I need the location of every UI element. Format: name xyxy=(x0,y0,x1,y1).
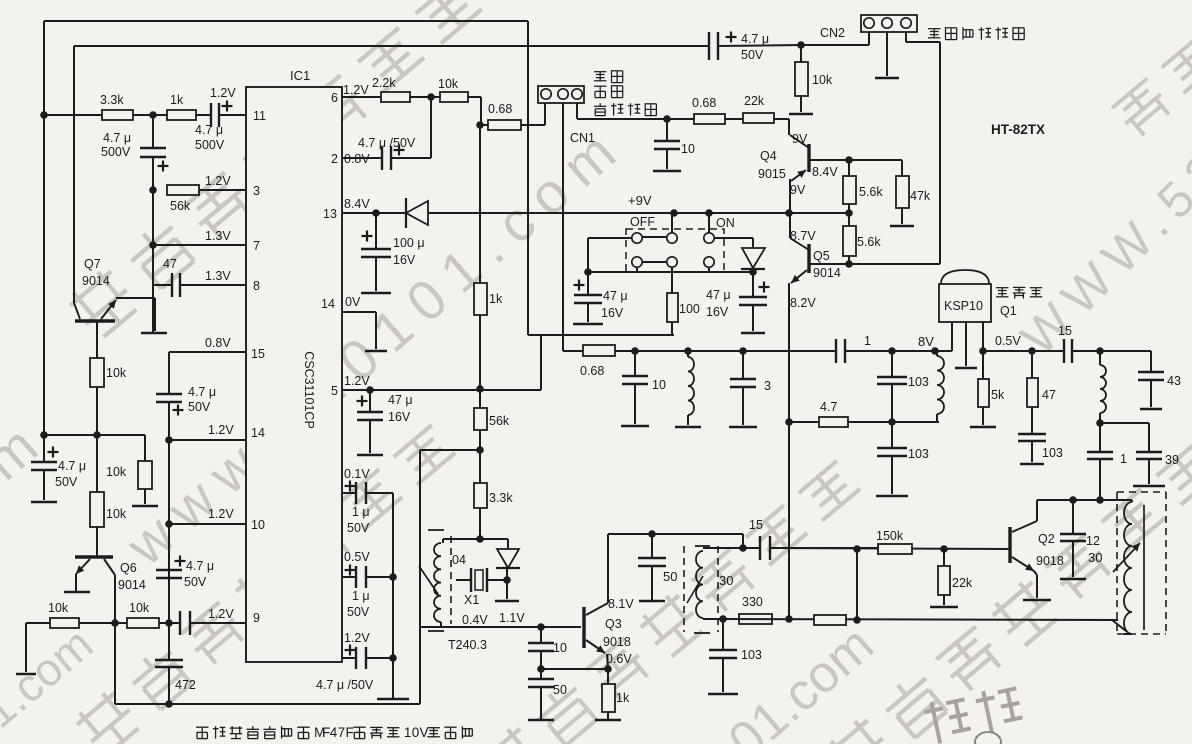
wire 0.5V line xyxy=(983,350,1064,352)
svg-text:39: 39 xyxy=(1165,453,1179,467)
wire 150k down xyxy=(856,549,858,620)
ground Q1 middle leg xyxy=(955,367,977,370)
resistor 10k row623 a xyxy=(50,618,79,628)
node junction base cap col xyxy=(537,623,545,631)
wire x169 upper xyxy=(168,352,170,394)
ground X1 xyxy=(506,580,508,599)
svg-text:15: 15 xyxy=(1058,324,1072,338)
svg-text:+9V: +9V xyxy=(628,193,652,208)
svg-text:4.7 μ: 4.7 μ xyxy=(186,559,214,573)
capacitor 15 b xyxy=(1063,339,1065,363)
wire pin13 row xyxy=(342,212,406,214)
watermark scribble bottom-right xyxy=(922,684,1024,744)
crystal X1 xyxy=(456,579,471,581)
svg-text:1k: 1k xyxy=(616,691,630,705)
svg-text:9V: 9V xyxy=(792,132,808,146)
capacitor 10 base xyxy=(540,627,542,643)
wire 8V line right xyxy=(845,350,952,352)
svg-text:0.68: 0.68 xyxy=(488,102,512,116)
capacitor 12 xyxy=(1072,500,1074,534)
capacitor 39 xyxy=(1148,423,1150,452)
svg-text:14: 14 xyxy=(321,297,335,311)
svg-text:10: 10 xyxy=(553,641,567,655)
coil 30 tank xyxy=(703,547,743,549)
capacitor 47u/16V pin5 xyxy=(369,390,371,412)
capacitor 47u/16V right xyxy=(752,269,754,297)
wire CN2 pin1 xyxy=(868,32,870,45)
watermark chinese center-bottom xyxy=(477,456,865,744)
wire Q5 collector stem xyxy=(789,213,791,238)
svg-text:30: 30 xyxy=(1088,550,1102,565)
wire Q7 emitter xyxy=(116,297,155,299)
wire pin6 down xyxy=(480,97,482,125)
svg-text:8.1V: 8.1V xyxy=(608,597,634,611)
wire Q5 emitter vertical xyxy=(788,283,790,619)
coil choke mid xyxy=(687,351,689,357)
svg-text:16V: 16V xyxy=(601,306,624,320)
wire bottom rail right xyxy=(723,619,1118,620)
switch contacts bottom xyxy=(632,257,642,267)
wire 8V line left xyxy=(615,350,836,352)
svg-text:1.2V: 1.2V xyxy=(208,607,234,621)
node junction coil3 top xyxy=(931,347,939,355)
svg-text:1 μ: 1 μ xyxy=(352,505,370,519)
wire Q4 base row xyxy=(809,159,902,161)
svg-text:500V: 500V xyxy=(101,145,131,159)
svg-text:1: 1 xyxy=(404,725,412,740)
resistor 1k Q3 xyxy=(602,684,615,712)
capacitor coupling pin9 xyxy=(179,611,181,635)
node junction pin13 xyxy=(372,209,380,217)
svg-text:50: 50 xyxy=(553,683,567,697)
resistor 47k xyxy=(901,160,903,176)
wire pin10 row xyxy=(169,523,246,525)
svg-text:4.7 μ: 4.7 μ xyxy=(58,459,86,473)
wire 9V rail xyxy=(428,212,849,214)
svg-text:56k: 56k xyxy=(170,199,191,213)
transformer T240.3 primary coil xyxy=(442,539,444,543)
wire pin14 row xyxy=(169,439,246,441)
watermark chinese bottom-left xyxy=(72,420,460,744)
wire left gnd stub row623 xyxy=(25,623,27,672)
node junction 9V rail x789 xyxy=(785,209,793,217)
svg-text:47: 47 xyxy=(1042,388,1056,402)
capacitor 103 x1032 xyxy=(1018,433,1046,435)
svg-text:4.7: 4.7 xyxy=(820,400,837,414)
capacitor 4.7u/50V pin2 xyxy=(381,146,383,170)
svg-text:1 μ: 1 μ xyxy=(352,589,370,603)
svg-text:Q4: Q4 xyxy=(760,149,777,163)
node junction cap50b xyxy=(648,530,656,538)
svg-text:13: 13 xyxy=(323,207,337,221)
capacitor 1 b xyxy=(1099,423,1101,452)
wire 4.7 row xyxy=(789,421,939,423)
wire CN2pin3 vertical xyxy=(939,42,941,264)
svg-text:50V: 50V xyxy=(55,475,78,489)
resistor 10k Q7base xyxy=(90,358,104,387)
coil choke 8V xyxy=(937,356,944,414)
svg-text:1.2V: 1.2V xyxy=(210,86,236,100)
svg-text:0.4V: 0.4V xyxy=(462,613,488,627)
coil antenna core xyxy=(1143,505,1145,630)
svg-text:F: F xyxy=(345,725,353,740)
node junction x97 y435 xyxy=(93,431,101,439)
capacitor 4.7u/50V top xyxy=(708,32,710,60)
svg-text:100: 100 xyxy=(679,302,700,316)
node junction 4.7/103 xyxy=(888,347,896,355)
transistor Q3 9018 xyxy=(582,607,585,648)
svg-text:50: 50 xyxy=(663,569,677,584)
capacitor 4.7u/50V pin15 xyxy=(156,393,182,395)
ground Q7 emitter xyxy=(141,332,167,335)
wire top border xyxy=(44,20,528,22)
svg-text:1.2V: 1.2V xyxy=(208,423,234,437)
node junction 47u left xyxy=(584,268,592,276)
node junction coil2 xyxy=(684,347,692,355)
svg-text:0.68: 0.68 xyxy=(580,364,604,378)
node junction 47 top xyxy=(1028,347,1036,355)
node junction Q3 emitter xyxy=(604,665,612,673)
svg-text:T240.3: T240.3 xyxy=(448,638,487,652)
svg-text:1.2V: 1.2V xyxy=(343,83,369,97)
node junction Q1 right leg xyxy=(979,347,987,355)
node junction 0.68 row xyxy=(476,121,484,129)
ground Q6 emitter xyxy=(64,591,90,594)
transistor Q1 KSP10 xyxy=(939,284,991,322)
svg-text:8.7V: 8.7V xyxy=(790,229,816,243)
wire Q1 legs xyxy=(951,322,953,351)
svg-text:56k: 56k xyxy=(489,414,510,428)
wire Q2 emitter xyxy=(1034,571,1037,575)
node junction pin7 row xyxy=(149,241,157,249)
resistor 330 xyxy=(739,614,772,624)
wire row435 xyxy=(44,434,145,436)
wire pin3 row xyxy=(199,189,246,191)
svg-text:0: 0 xyxy=(412,725,420,740)
labels mic jack xyxy=(594,70,623,82)
svg-text:9015: 9015 xyxy=(758,167,786,181)
svg-text:5.6k: 5.6k xyxy=(859,185,883,199)
svg-text:8V: 8V xyxy=(918,334,934,349)
resistor 3.3k osc xyxy=(479,450,481,483)
resistor 150k xyxy=(878,544,912,554)
node junction pin5 cap xyxy=(366,386,374,394)
svg-text:5.6k: 5.6k xyxy=(857,235,881,249)
diode switch xyxy=(714,237,753,239)
svg-text:47: 47 xyxy=(163,257,177,271)
capacitor 47p pin8 xyxy=(171,273,173,297)
resistor 4.7 xyxy=(819,417,848,427)
svg-text:Q1: Q1 xyxy=(1000,304,1017,318)
wire step to cap15 xyxy=(742,534,744,548)
resistor 0.68 b xyxy=(563,350,583,352)
svg-text:4.7 μ: 4.7 μ xyxy=(188,385,216,399)
wire Q3 top row xyxy=(608,533,743,535)
wire left border vertical xyxy=(43,21,45,462)
resistor 5.6k a xyxy=(848,160,850,176)
capacitor 100u/16V xyxy=(375,213,377,249)
ground pin14R xyxy=(365,350,387,353)
svg-text:47 μ: 47 μ xyxy=(388,393,413,407)
wire border2 horizontal xyxy=(74,45,709,47)
svg-text:43: 43 xyxy=(1167,374,1181,388)
wire Q7 base stem xyxy=(96,321,98,358)
node junction 56k row xyxy=(149,186,157,194)
wire pin5 up-link xyxy=(540,335,542,390)
switch dashed box xyxy=(626,229,724,272)
svg-text:10k: 10k xyxy=(812,73,833,87)
svg-text:103: 103 xyxy=(1042,446,1063,460)
svg-text:22k: 22k xyxy=(744,94,765,108)
svg-text:Q5: Q5 xyxy=(813,249,830,263)
svg-text:47 μ: 47 μ xyxy=(706,288,731,302)
resistor 0.68 mic xyxy=(488,120,521,130)
wire pin5 row xyxy=(342,389,541,391)
capacitor 103 lower xyxy=(891,422,893,448)
wire CN1 pin3 xyxy=(576,103,578,119)
svg-text:9018: 9018 xyxy=(603,635,631,649)
wire net-A horizontal xyxy=(528,334,674,336)
wire Q2 collector row xyxy=(1037,499,1132,501)
svg-text:9014: 9014 xyxy=(82,274,110,288)
wire CN2 pin3 xyxy=(905,32,907,42)
wire 0.68 row xyxy=(480,124,545,126)
node junction rail x169 xyxy=(165,700,173,708)
svg-text:1k: 1k xyxy=(489,292,503,306)
node junction osc top xyxy=(476,535,484,543)
wire Q3 collector xyxy=(607,534,609,603)
svg-text:3: 3 xyxy=(764,379,771,393)
wire Q6 collector xyxy=(114,575,116,704)
svg-text:50V: 50V xyxy=(347,521,370,535)
svg-text:15: 15 xyxy=(749,518,763,532)
svg-text:11: 11 xyxy=(253,109,266,123)
wire x169 mid xyxy=(168,402,170,623)
svg-text:0.6V: 0.6V xyxy=(606,652,632,666)
node junction cap10b xyxy=(631,347,639,355)
wire row623 xyxy=(26,622,180,624)
capacitor 4.7u/50V left xyxy=(43,435,45,462)
watermark chinese top-left xyxy=(65,0,487,340)
svg-text:8.2V: 8.2V xyxy=(790,296,816,310)
wire Q2 base row xyxy=(770,548,1010,549)
svg-text:9: 9 xyxy=(253,611,260,625)
svg-text:5k: 5k xyxy=(991,388,1005,402)
wire CN1pin1 stem xyxy=(544,103,546,125)
svg-text:KSP10: KSP10 xyxy=(944,299,983,313)
svg-text:CSC31101CP: CSC31101CP xyxy=(302,351,316,429)
svg-text:4.7 μ: 4.7 μ xyxy=(195,123,223,137)
svg-text:103: 103 xyxy=(741,648,762,662)
transformer T240.3 core dashes xyxy=(450,536,452,624)
node junction 22k top xyxy=(940,545,948,553)
node junction pin14 row xyxy=(165,436,173,444)
svg-text:4.7 μ: 4.7 μ xyxy=(741,32,769,46)
svg-text:2: 2 xyxy=(331,152,338,166)
diode D pin13 xyxy=(405,198,407,228)
wire switch bottom link xyxy=(588,271,753,273)
wire column x153 lower xyxy=(152,157,154,333)
wire Q2 collector stem xyxy=(1036,500,1038,521)
svg-text:0.5V: 0.5V xyxy=(344,550,370,564)
capacitor 472 xyxy=(168,623,170,660)
capacitor 50 collector xyxy=(651,534,653,558)
svg-text:7: 7 xyxy=(253,239,260,253)
capacitor 1 line xyxy=(835,339,837,363)
transistor Q7 9014 xyxy=(75,319,115,322)
svg-text:10k: 10k xyxy=(438,77,459,91)
capacitor 10 b xyxy=(634,351,636,376)
svg-text:4.7 μ /50V: 4.7 μ /50V xyxy=(316,678,374,692)
svg-text:500V: 500V xyxy=(195,138,225,152)
node junction base row 849 xyxy=(845,156,853,164)
svg-text:IC1: IC1 xyxy=(290,68,310,83)
node junction 9V switch xyxy=(670,209,678,217)
svg-text:7: 7 xyxy=(338,725,346,740)
resistor 10k CN2 xyxy=(800,45,802,62)
svg-text:10k: 10k xyxy=(106,465,127,479)
resistor 1k xyxy=(167,110,196,120)
node junction x44 y435 xyxy=(40,431,48,439)
svg-text:1k: 1k xyxy=(170,93,184,107)
capacitor 4.7u/50V pin10col xyxy=(156,569,182,571)
node junction Q6col row623 xyxy=(111,619,119,627)
wire 0.68-22k xyxy=(725,118,743,120)
wire 56k row link xyxy=(420,449,480,451)
svg-text:9018: 9018 xyxy=(1036,554,1064,568)
svg-text:10: 10 xyxy=(681,142,695,156)
wire X1 right xyxy=(487,579,507,581)
ground 1k Q3 xyxy=(595,719,621,722)
capacitor 50 base xyxy=(540,669,542,679)
wire 0.5V right xyxy=(1072,350,1151,352)
svg-text:1.3V: 1.3V xyxy=(205,229,231,243)
svg-text:1: 1 xyxy=(864,334,871,348)
resistor 10k pin6 xyxy=(440,92,468,102)
svg-text:330: 330 xyxy=(742,595,763,609)
resistor 3.3k xyxy=(102,110,133,120)
svg-text:103: 103 xyxy=(908,375,929,389)
svg-text:10k: 10k xyxy=(106,366,127,380)
switch contacts top xyxy=(632,233,642,243)
svg-text:15: 15 xyxy=(251,347,265,361)
ground cap50 xyxy=(528,719,554,722)
svg-text:04: 04 xyxy=(452,553,466,567)
resistor 1k column xyxy=(474,283,487,315)
ground cap-col rail bar xyxy=(377,698,409,701)
svg-text:10k: 10k xyxy=(106,507,127,521)
svg-text:Q6: Q6 xyxy=(120,561,137,575)
svg-text:0.5V: 0.5V xyxy=(995,334,1021,348)
wire pin8 row xyxy=(154,284,172,286)
svg-text:CN1: CN1 xyxy=(570,131,595,145)
node junction X1/diode xyxy=(503,576,511,584)
watermark chinese right-bottom xyxy=(823,438,1192,744)
svg-text:3.3k: 3.3k xyxy=(489,491,513,505)
wire pin14R row xyxy=(342,311,376,313)
svg-text:16V: 16V xyxy=(393,253,416,267)
svg-text:8: 8 xyxy=(253,279,260,293)
resistor 10k row623 b xyxy=(127,618,159,628)
resistor 47 xyxy=(1031,351,1033,378)
wire border2 left vertical xyxy=(73,46,75,303)
node junction pin5/1k xyxy=(476,385,484,393)
resistor 2.2k xyxy=(381,92,410,102)
wire CN1 pin2 vertical xyxy=(562,103,564,351)
resistor 5.6k b xyxy=(848,213,850,226)
wire switch left xyxy=(588,237,631,239)
svg-text:22k: 22k xyxy=(952,576,973,590)
node junction coil4 bottom xyxy=(1096,419,1104,427)
svg-text:ON: ON xyxy=(716,216,735,230)
wire 22k right xyxy=(774,118,789,120)
coil output xyxy=(1099,351,1101,365)
coil 30 dashed box xyxy=(683,546,685,632)
node junction 9V switch ON xyxy=(705,209,713,217)
svg-text:9014: 9014 xyxy=(118,578,146,592)
svg-text:1: 1 xyxy=(1120,452,1127,466)
label wired output jack xyxy=(928,27,1024,39)
svg-text:30: 30 xyxy=(719,573,733,588)
capacitor 103 upper xyxy=(891,351,893,377)
label Q1 emitter tube xyxy=(996,287,1042,298)
svg-text:CN2: CN2 xyxy=(820,26,845,40)
wire pin15 row xyxy=(169,351,246,353)
svg-text:Q3: Q3 xyxy=(605,617,622,631)
svg-text:Q7: Q7 xyxy=(84,257,101,271)
node junction coil4 top xyxy=(1096,347,1104,355)
svg-text:8.4V: 8.4V xyxy=(344,197,370,211)
svg-text:4.7 μ: 4.7 μ xyxy=(103,131,131,145)
node junction rail x789 xyxy=(785,615,793,623)
node junction cap50 col xyxy=(537,665,545,673)
svg-text:3: 3 xyxy=(253,184,260,198)
svg-text:Q2: Q2 xyxy=(1038,532,1055,546)
wire switch stems xyxy=(671,213,673,233)
svg-text:X1: X1 xyxy=(464,593,479,607)
wire Q5 base row xyxy=(809,263,940,265)
transistor Q5 9014 xyxy=(807,244,810,273)
wire osc left vertical xyxy=(419,450,421,704)
svg-text:0.68: 0.68 xyxy=(692,96,716,110)
wire bottom rail xyxy=(115,703,420,705)
capacitor 4.7u/500V pin11 xyxy=(210,103,212,127)
wire cap col mid xyxy=(540,651,542,669)
node junction 150k left xyxy=(853,545,861,553)
node junction left-border xyxy=(40,111,48,119)
svg-text:150k: 150k xyxy=(876,529,904,543)
node junction cap10 top xyxy=(663,115,671,123)
svg-text:1.2V: 1.2V xyxy=(208,507,234,521)
node junction cap12 xyxy=(1069,496,1077,504)
svg-text:6: 6 xyxy=(331,91,338,105)
coil antenna 30 xyxy=(1124,502,1132,634)
op-amp IC1 CSC31101CP box xyxy=(246,87,342,662)
capacitor 15 tank xyxy=(743,547,760,549)
transformer T240.3 adjust arrow xyxy=(419,566,438,594)
coil antenna arrow xyxy=(1113,543,1140,572)
connector CN2 xyxy=(861,15,917,32)
capacitor 43 xyxy=(1150,351,1152,372)
node junction pin10 row xyxy=(165,520,173,528)
transistor Q4 9015 xyxy=(807,144,810,172)
node junction tank top xyxy=(739,544,747,552)
resistor 5k xyxy=(982,351,984,379)
wire column x153 upper xyxy=(152,115,154,148)
svg-text:1.2V: 1.2V xyxy=(344,374,370,388)
svg-text:0V: 0V xyxy=(345,295,361,309)
wire pin7 row xyxy=(153,244,246,246)
